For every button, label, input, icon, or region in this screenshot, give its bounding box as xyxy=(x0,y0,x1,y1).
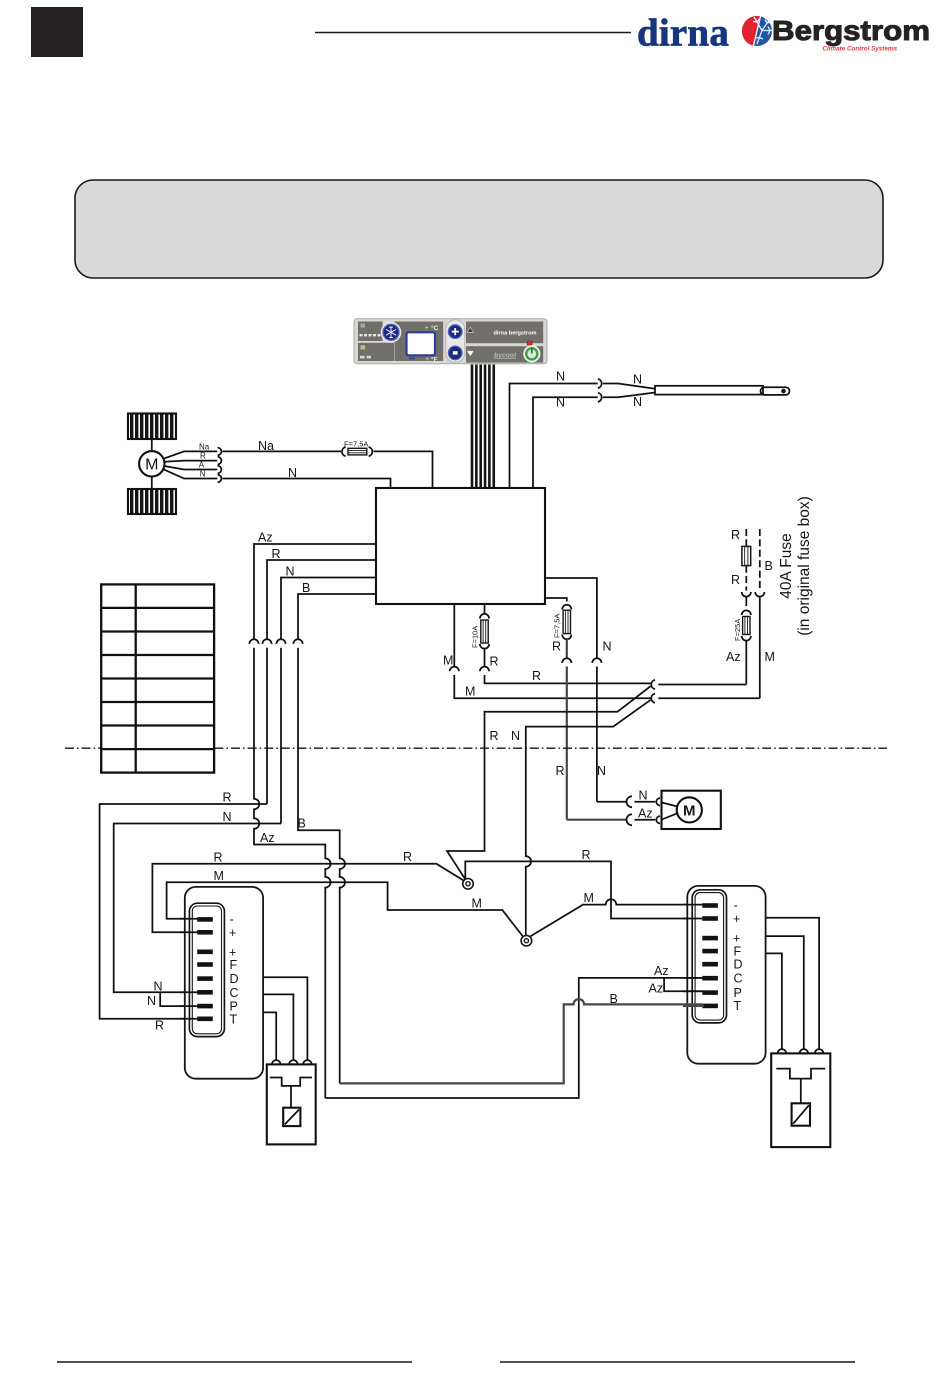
wire Az from fuse down to junction row xyxy=(726,641,746,685)
svg-text:F=7,5A: F=7,5A xyxy=(344,439,368,448)
wire N down across chassis line xyxy=(596,667,598,802)
svg-text:Na: Na xyxy=(258,439,274,453)
svg-text:B: B xyxy=(765,559,773,573)
wire N from control unit (left side) xyxy=(281,564,376,639)
svg-text:N: N xyxy=(286,564,295,578)
svg-text:R: R xyxy=(223,790,232,804)
connector under B dashed wire xyxy=(755,592,764,597)
fan blade block (top) of evaporator blower xyxy=(128,414,176,440)
wire N from control unit right edge xyxy=(545,578,612,658)
left module connector block xyxy=(189,903,224,1036)
svg-text:F: F xyxy=(230,958,238,972)
svg-text:R: R xyxy=(403,850,412,864)
label 40A Fuse (rotated) xyxy=(778,533,795,599)
wire R dashed below 40A fuse xyxy=(731,566,746,591)
wire N to condenser fan motor xyxy=(597,789,648,803)
wire R horizontal to far left column xyxy=(100,790,267,1032)
panel arrow marks xyxy=(467,327,474,356)
condenser fan motor M xyxy=(662,791,721,829)
svg-text:N: N xyxy=(511,729,520,743)
svg-text:N: N xyxy=(147,994,156,1008)
header black square xyxy=(31,7,83,57)
wire R (gray) down across chassis line xyxy=(566,667,568,820)
fan blade block (bottom) of evaporator blower xyxy=(128,489,176,514)
connector on wire N xyxy=(592,658,601,663)
svg-text:B: B xyxy=(610,992,618,1006)
panel temp +/- buttons xyxy=(446,320,465,363)
svg-text:M: M xyxy=(145,457,158,474)
svg-text:+: + xyxy=(733,912,740,926)
svg-text:F: F xyxy=(734,944,742,958)
wire R from junction J1 up and over to right relay pin + xyxy=(465,848,702,919)
svg-text:N: N xyxy=(603,640,612,654)
right module output wire (F) to solenoid xyxy=(766,953,782,1049)
wire R (gray) from fuse to connector xyxy=(552,639,567,658)
wire B from control unit (left side) xyxy=(298,581,376,640)
svg-text:Na: Na xyxy=(199,442,210,451)
wire Na from fuse down into control unit xyxy=(374,451,433,488)
probe leads converging xyxy=(603,372,655,409)
right relay/control module body xyxy=(687,886,765,1064)
connector on wire N xyxy=(276,639,285,644)
svg-text:Az: Az xyxy=(726,650,741,664)
svg-text:N: N xyxy=(223,810,232,824)
left module output wire T to solenoid xyxy=(263,1012,276,1060)
left module pin bars xyxy=(197,917,213,1021)
panel power LED xyxy=(527,341,532,345)
connector on lower probe wire xyxy=(598,393,602,402)
wire N branch to pin P xyxy=(147,992,197,1008)
svg-text:Climate Control Systems: Climate Control Systems xyxy=(822,46,897,53)
probe wire N (upper) xyxy=(510,370,598,488)
svg-text:N: N xyxy=(633,395,642,409)
connector pair on wire Az (condenser) xyxy=(627,814,661,825)
right module pin labels xyxy=(733,899,743,1014)
wire R down to junction with horizontal R xyxy=(266,648,268,804)
svg-text:+: + xyxy=(425,326,429,332)
header rule line xyxy=(315,32,631,34)
svg-text:M: M xyxy=(472,896,482,910)
svg-text:N: N xyxy=(633,372,642,386)
wire Az down with hops over R and N xyxy=(254,648,331,1098)
connector on wire B xyxy=(293,639,302,644)
connector on gray wire R xyxy=(562,658,571,663)
wire N center with hop over R into junction J2 xyxy=(526,748,531,936)
probe wire N (lower) xyxy=(533,395,598,488)
blower motor lead R xyxy=(164,452,217,462)
wire R center zigzag into junction J1 xyxy=(447,748,485,882)
right solenoid valve box xyxy=(771,1053,830,1147)
svg-text:R: R xyxy=(556,764,565,778)
svg-text:D: D xyxy=(230,972,239,986)
note box (empty rounded gray) xyxy=(75,180,883,278)
svg-text:M: M xyxy=(443,654,453,668)
svg-text:N: N xyxy=(639,789,648,803)
svg-text:+: + xyxy=(426,357,430,363)
logo globe icon xyxy=(742,16,777,46)
fuse F=10A xyxy=(470,614,489,649)
svg-text:M: M xyxy=(584,891,594,905)
svg-text:°F: °F xyxy=(431,356,438,364)
wire R from fuse to connector xyxy=(485,649,499,669)
wire R dashed above 40A fuse xyxy=(731,528,746,546)
svg-text:F=25A: F=25A xyxy=(733,619,742,641)
connector on lead R xyxy=(218,457,222,465)
right module output wire (+2) to solenoid xyxy=(766,936,804,1050)
wire B down with hops, to bottom run xyxy=(298,648,346,1084)
wire N lower branch with diagonal to connector C2 xyxy=(511,700,651,749)
reference table xyxy=(101,584,214,772)
right module pin lead-in stubs xyxy=(683,905,704,992)
svg-text:N: N xyxy=(288,466,297,480)
svg-text:R: R xyxy=(731,573,740,587)
svg-text:dirna: dirna xyxy=(637,12,729,55)
control unit box U1 xyxy=(376,488,545,604)
connector on upper probe wire xyxy=(598,379,602,388)
svg-text:dirna bergstrom: dirna bergstrom xyxy=(494,331,537,337)
svg-text:Az: Az xyxy=(638,806,653,820)
wire M from control unit bottom xyxy=(443,604,454,668)
svg-text:40A Fuse: 40A Fuse xyxy=(778,533,795,599)
panel brand text xyxy=(494,331,537,359)
svg-text:Az: Az xyxy=(260,831,275,845)
left module output wire D to solenoid xyxy=(263,977,307,1060)
svg-text:D: D xyxy=(734,957,743,971)
wire M from junction J2 to right relay pin - (hop over R vertical) xyxy=(528,891,703,938)
fuse F=7,5A (clutch) xyxy=(552,605,571,639)
svg-text:R: R xyxy=(272,547,281,561)
svg-text:N: N xyxy=(154,979,163,993)
svg-text:P: P xyxy=(734,986,742,1000)
wire Az branch to right module pin P xyxy=(649,978,703,996)
svg-text:N: N xyxy=(556,370,565,384)
svg-text:M: M xyxy=(214,869,224,883)
connector on wire Az xyxy=(249,639,258,644)
wire N horizontal to far left column xyxy=(114,810,281,994)
svg-text:°C: °C xyxy=(431,324,439,332)
svg-text:Az: Az xyxy=(258,530,273,544)
svg-text:A: A xyxy=(199,461,205,470)
connector on wire M xyxy=(450,667,459,672)
control panel faceplate xyxy=(354,319,547,364)
connector C1 (Az/R) xyxy=(651,680,655,689)
ribbon cable from panel to control unit xyxy=(471,365,495,489)
svg-text:C: C xyxy=(734,971,743,985)
svg-text:R: R xyxy=(731,528,740,542)
connector on wire R xyxy=(262,639,271,644)
svg-text:F=7,5A: F=7,5A xyxy=(552,614,561,638)
logo dirna wordmark xyxy=(637,12,729,55)
chassis separation line (dash-dot) xyxy=(65,747,887,749)
connector on lead A xyxy=(218,466,222,474)
left solenoid valve box xyxy=(267,1064,316,1144)
svg-text:B: B xyxy=(298,817,306,831)
svg-text:M: M xyxy=(683,802,696,819)
connector on lead Na xyxy=(218,448,222,456)
junction J2 (solder point) xyxy=(521,935,532,946)
wire Az (gray) to condenser fan motor xyxy=(567,806,653,820)
fuse F=7,5A (blower) xyxy=(342,439,372,456)
wire R to connector C1 xyxy=(485,669,652,684)
svg-text:N: N xyxy=(597,764,606,778)
connector on wire R xyxy=(480,667,489,672)
svg-text:Az: Az xyxy=(649,981,664,995)
panel display screen xyxy=(407,324,439,364)
svg-text:R: R xyxy=(490,729,499,743)
right module output wire (+) to solenoid xyxy=(766,918,820,1050)
svg-text:Az: Az xyxy=(654,964,669,978)
svg-text:F=10A: F=10A xyxy=(470,626,479,648)
wire R from control unit (left side) xyxy=(267,547,376,640)
connector under R dashed wire xyxy=(742,592,751,597)
svg-text:R: R xyxy=(490,655,499,669)
svg-text:R: R xyxy=(200,452,206,461)
left module pin lead-in stubs xyxy=(180,919,199,1019)
labels R N below chassis line xyxy=(556,764,607,778)
connector C2 (M) xyxy=(651,694,655,703)
svg-text:T: T xyxy=(230,1012,238,1026)
wire R lower branch with diagonal to connector C1 xyxy=(485,686,651,748)
svg-text:bycool: bycool xyxy=(494,352,516,359)
wire R from left relay pin + to junction J1 xyxy=(152,850,467,932)
wire M horizontal into connector C2 xyxy=(658,697,760,699)
logo tagline xyxy=(822,46,897,53)
left solenoid terminal bumps xyxy=(272,1060,312,1064)
svg-text:R: R xyxy=(155,1018,164,1032)
panel power button xyxy=(523,345,540,362)
stub from control unit right edge to clutch fuse xyxy=(545,598,567,602)
temperature probe body xyxy=(655,386,790,395)
svg-text:B: B xyxy=(302,581,310,595)
right module pin bars xyxy=(702,903,718,1008)
left relay/control module body xyxy=(185,887,263,1079)
svg-text:N: N xyxy=(200,469,206,478)
wire R from control unit into fuse F=10A xyxy=(484,604,486,615)
left module pin labels xyxy=(229,912,239,1026)
wire B dashed (battery feed) xyxy=(760,529,773,591)
wire Na from connector to fuse xyxy=(223,439,342,453)
connector pair on wire N (condenser) xyxy=(627,796,661,807)
wire N down to junction with horizontal N xyxy=(280,648,282,824)
svg-text:M: M xyxy=(765,650,775,664)
svg-text:R: R xyxy=(532,669,541,683)
fuse 40A (in original fuse box) xyxy=(742,546,751,565)
blower motor lead N xyxy=(164,469,218,478)
panel snowflake button xyxy=(381,322,402,343)
wire M from left relay pin - via corners toward junction J2 xyxy=(167,851,526,940)
svg-text:-: - xyxy=(230,912,234,926)
svg-text:R: R xyxy=(552,640,561,654)
wire N from blower into control unit xyxy=(223,466,391,488)
logo Bergstrom wordmark xyxy=(772,15,930,46)
right module connector block xyxy=(692,890,726,1023)
wire Az from connector to fuse F=25A xyxy=(745,597,747,606)
connector on lead N xyxy=(218,475,222,483)
svg-text:C: C xyxy=(230,986,239,1000)
footer rule left xyxy=(57,1361,412,1363)
wire M from connector down to junction row xyxy=(760,597,775,699)
junction J1 (solder point) xyxy=(463,879,474,890)
wire M to connector C2 xyxy=(454,675,651,699)
svg-text:(in original fuse box): (in original fuse box) xyxy=(796,496,813,636)
wire Az bottom run to right module pin C xyxy=(325,964,702,1098)
wire Az from control unit (left side) xyxy=(254,530,376,639)
wire B bottom run (gray) with hop to right module pin T xyxy=(340,992,703,1084)
svg-text:N: N xyxy=(556,395,565,409)
svg-text:R: R xyxy=(582,848,591,862)
label in original fuse box (rotated) xyxy=(796,496,813,636)
svg-text:T: T xyxy=(734,999,742,1013)
svg-text:M: M xyxy=(465,685,475,699)
right solenoid terminal bumps xyxy=(778,1049,824,1053)
fuse F=25A xyxy=(733,610,751,641)
svg-text:-: - xyxy=(734,899,738,913)
svg-text:+: + xyxy=(229,926,236,940)
wire Az horizontal into connector C1 xyxy=(658,684,746,686)
svg-text:R: R xyxy=(214,851,223,865)
svg-text:Bergstrom: Bergstrom xyxy=(772,15,930,46)
blower motor M (evaporator) xyxy=(139,439,164,489)
blower motor lead Na xyxy=(164,442,218,458)
footer rule right xyxy=(500,1361,855,1363)
blower motor lead A xyxy=(164,461,217,470)
left module output wire C to solenoid xyxy=(263,994,293,1060)
